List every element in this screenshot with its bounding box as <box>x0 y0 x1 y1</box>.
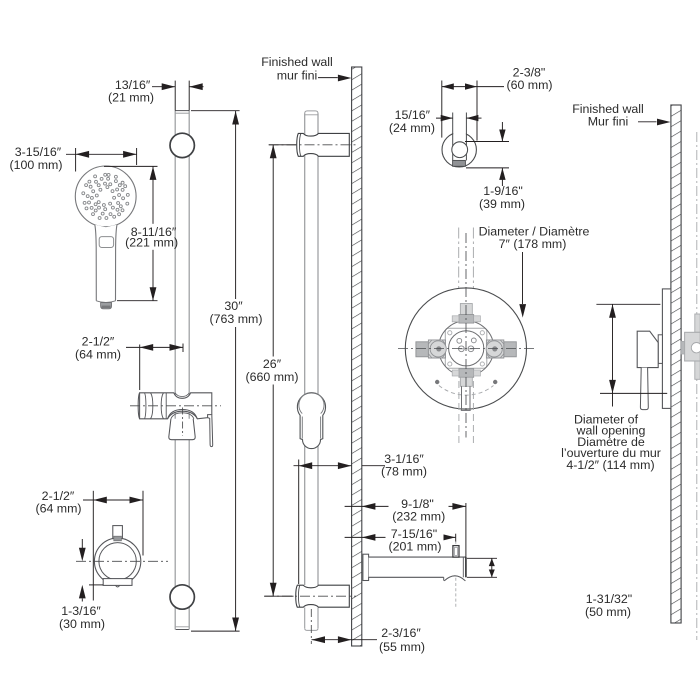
dimension 3-1/16" (78 mm) bar standoff <box>294 452 428 584</box>
valve rough-in plate <box>445 328 487 368</box>
svg-text:1-31/32": 1-31/32" <box>586 592 632 606</box>
svg-text:(100 mm): (100 mm) <box>9 158 62 172</box>
hand shower head <box>75 166 136 227</box>
svg-text:(763 mm): (763 mm) <box>209 312 262 326</box>
dimension 2-3/8" (60 mm) elbow escutcheon <box>442 66 553 141</box>
dimension 15/16" (24 mm) elbow width <box>389 108 482 135</box>
slider clip (side view) <box>297 392 325 448</box>
dimension 1-9/16" (39 mm) elbow drop <box>465 122 525 211</box>
dimension 4-1/2" (114 mm) wall opening <box>561 304 667 472</box>
hand shower holder (front view) <box>138 393 212 419</box>
dimension 2-3/16" (55 mm) bottom offset <box>311 609 425 654</box>
svg-text:3-15/16″: 3-15/16″ <box>15 145 62 159</box>
label finished wall / mur fini (centre) <box>261 55 351 82</box>
svg-text:Finished wall: Finished wall <box>261 55 333 69</box>
svg-text:(232 mm): (232 mm) <box>392 509 445 523</box>
svg-text:(64 mm): (64 mm) <box>35 502 81 516</box>
svg-text:26″: 26″ <box>263 357 282 371</box>
rough valve axis centerline <box>696 132 698 640</box>
svg-text:(24 mm): (24 mm) <box>389 121 435 135</box>
supply elbow escutcheon <box>442 133 476 167</box>
holder mount centerline <box>76 560 168 562</box>
svg-text:(50 mm): (50 mm) <box>585 605 631 619</box>
cartridge screws <box>457 338 476 352</box>
valve outlet pipe below <box>459 381 474 445</box>
escutcheon plate (side view) <box>662 289 671 409</box>
svg-text:2-1/2″: 2-1/2″ <box>82 335 115 349</box>
valve bottom connection stub <box>452 369 480 387</box>
svg-text:(39 mm): (39 mm) <box>479 197 525 211</box>
label finished wall / Mur fini (right) <box>572 102 670 129</box>
slide bar top mount (side view) <box>297 133 350 156</box>
rough valve behind wall <box>681 314 700 379</box>
supply elbow body tube <box>453 113 467 161</box>
supply elbow inner circle <box>452 142 468 158</box>
slide bar bottom mount (side view) <box>296 585 350 607</box>
svg-text:(30 mm): (30 mm) <box>59 617 105 631</box>
diverter axis centerline <box>455 541 457 545</box>
svg-text:(60 mm): (60 mm) <box>506 78 552 92</box>
tub spout body <box>369 557 466 581</box>
svg-text:(221 mm): (221 mm) <box>125 235 178 249</box>
holder mount top tab <box>113 526 123 541</box>
svg-text:1-3/16″: 1-3/16″ <box>61 604 101 618</box>
svg-text:mur fini: mur fini <box>277 69 318 83</box>
holder lever <box>208 415 213 447</box>
trim dashed arc <box>439 386 494 396</box>
dimension 26" (660 mm) mount spacing <box>245 145 301 596</box>
svg-text:(55 mm): (55 mm) <box>379 640 425 654</box>
trim screw holes <box>435 380 439 384</box>
slide bar bottom mount (front view) <box>170 585 194 609</box>
dimension 13/16" (21 mm) bar diameter <box>108 78 204 111</box>
tub spout mouth <box>443 577 445 580</box>
supply elbow outlet <box>453 160 466 166</box>
hand shower inlet nut <box>101 303 112 309</box>
handle body (side view) <box>637 331 658 367</box>
dimension 30" (763 mm) bar length <box>191 111 263 631</box>
dimension 8-11/16" (221 mm) hand shower length <box>104 166 178 300</box>
holder mount inner ring <box>99 543 136 580</box>
valve trim sleeve circle <box>439 321 494 376</box>
valve right supply port <box>486 340 516 358</box>
valve escutcheon circle <box>405 288 526 409</box>
slide bar top mount (front view) <box>170 133 194 157</box>
svg-text:30″: 30″ <box>224 299 243 313</box>
valve cartridge circle <box>449 331 484 366</box>
svg-text:(78 mm): (78 mm) <box>381 464 427 478</box>
svg-text:4-1/2″ (114 mm): 4-1/2″ (114 mm) <box>566 458 654 472</box>
slide bar (front view) <box>175 111 189 630</box>
valve horizontal centerline <box>398 348 536 350</box>
dimension 9-1/8" (232 mm) spout length <box>345 497 466 557</box>
svg-text:(660 mm): (660 mm) <box>245 370 298 384</box>
dimension 1-31/32" (50 mm) spout height <box>467 558 632 619</box>
diverter knob <box>453 546 459 558</box>
dimension 1-3/16" (30 mm) holder offset <box>59 539 105 631</box>
dimension 3-15/16" (100 mm) head diameter <box>9 145 136 172</box>
wall (finished wall, centre section) <box>352 67 362 646</box>
svg-text:Mur fini: Mur fini <box>588 115 629 129</box>
valve vertical centerline <box>465 233 467 438</box>
wall (finished wall, right section) <box>671 105 681 623</box>
dimension 2-1/2" (64 mm) holder width <box>35 489 143 601</box>
slide bar (side view) <box>305 111 318 631</box>
holder centerlines <box>130 405 221 407</box>
svg-text:7″ (178 mm): 7″ (178 mm) <box>499 237 567 251</box>
dimension 2-1/2" (64 mm) holder reach <box>75 335 183 390</box>
holder cup <box>168 410 198 440</box>
bottom mount centerline <box>264 595 356 597</box>
label diameter 7" (178 mm) <box>479 224 590 317</box>
valve supply pipes above (hidden) <box>459 228 474 315</box>
hand shower handle <box>95 225 117 303</box>
handle connector <box>658 335 662 364</box>
svg-text:2-3/16″: 2-3/16″ <box>381 626 421 640</box>
valve top connection stub <box>452 304 480 324</box>
holder mount (face view) outer ring <box>94 538 140 584</box>
svg-text:(21 mm): (21 mm) <box>108 90 154 104</box>
hand shower spray button <box>99 237 113 248</box>
tub spout flange <box>363 554 369 580</box>
top mount centerline <box>269 144 357 146</box>
dimension 7-15/16" (201 mm) spout to diverter <box>345 527 456 553</box>
valve left supply port <box>416 340 446 358</box>
holder mount bottom plate <box>103 579 132 587</box>
svg-text:(201 mm): (201 mm) <box>388 539 441 553</box>
handle lever (side view) <box>640 368 648 410</box>
svg-text:(64 mm): (64 mm) <box>75 348 121 362</box>
